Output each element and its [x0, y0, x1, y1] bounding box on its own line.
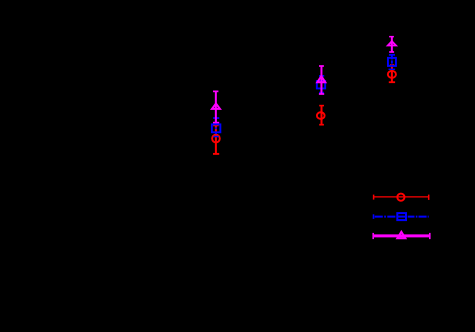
legend red entry line	[374, 195, 429, 200]
red circle marker group 1	[212, 135, 220, 143]
magenta triangle marker group 3	[388, 41, 396, 45]
blue square marker group 3	[388, 58, 396, 66]
legend magenta entry thick line	[373, 233, 430, 239]
blue square marker group 2	[317, 81, 325, 89]
magenta triangle marker group 2	[317, 76, 325, 82]
magenta error bar group 2	[319, 66, 324, 94]
legend blue square marker	[397, 213, 406, 220]
legend magenta triangle marker	[397, 232, 405, 238]
red error bar group 1	[213, 125, 219, 153]
magenta triangle marker group 1	[212, 104, 220, 109]
legend red circle marker	[397, 194, 404, 201]
blue square marker group 1	[212, 124, 221, 132]
red error bar group 3	[389, 65, 395, 82]
legend blue entry dash-dot line	[374, 214, 429, 219]
red circle marker group 3	[388, 71, 396, 78]
red error bar group 2	[319, 106, 324, 125]
magenta error bar group 1	[213, 91, 219, 122]
red circle marker group 2	[317, 112, 325, 119]
blue error bar group 2	[319, 76, 324, 93]
blue error bar group 3	[389, 55, 396, 70]
blue error bar group 1	[213, 118, 219, 137]
magenta error bar group 3	[389, 37, 394, 52]
